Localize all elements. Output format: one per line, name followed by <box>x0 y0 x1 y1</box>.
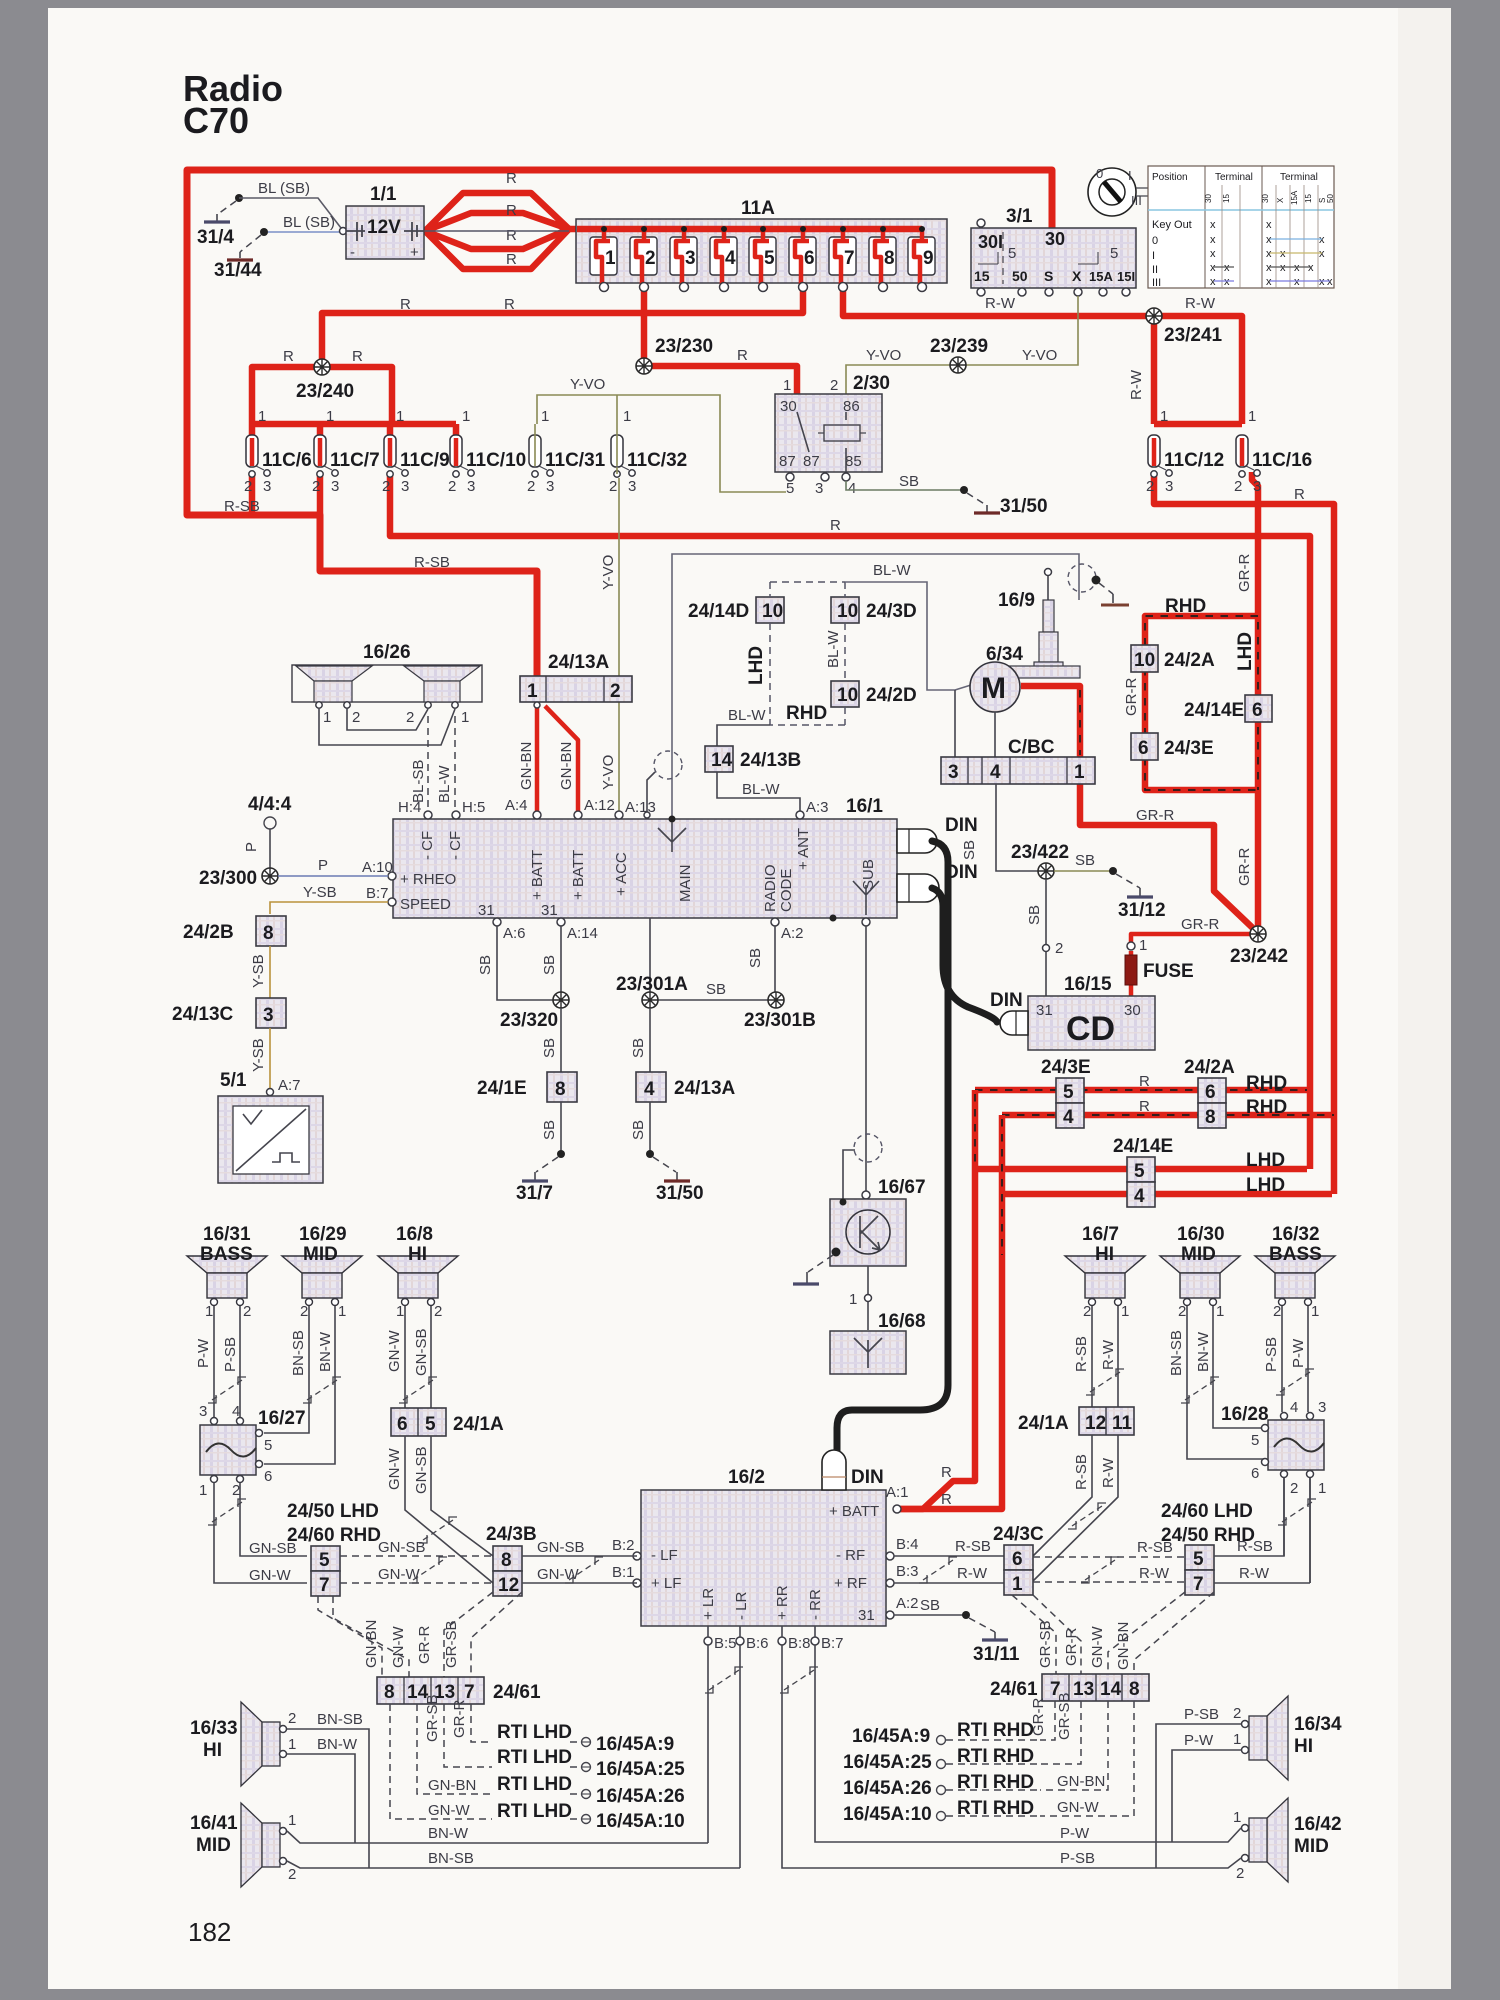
svg-text:RHD: RHD <box>786 703 827 724</box>
svg-text:16/28: 16/28 <box>1221 1404 1269 1425</box>
svg-text:30: 30 <box>1261 194 1270 203</box>
wire BL-W antenna main <box>672 554 1079 816</box>
fuse 3 <box>670 237 697 292</box>
svg-text:R-W: R-W <box>1139 1565 1170 1582</box>
wire amp A:1 pin <box>893 1505 901 1513</box>
wires 16/28 down <box>1284 1478 1310 1583</box>
23/301A net <box>650 918 775 1000</box>
svg-text:x: x <box>1266 219 1272 231</box>
svg-text:BL-W: BL-W <box>825 630 842 668</box>
dashed 24/3C to 24/60 right <box>1033 1557 1185 1582</box>
ignition switch 3/1 <box>971 228 1136 288</box>
svg-text:GN-W: GN-W <box>1089 1626 1106 1668</box>
svg-text:GN-W: GN-W <box>249 1567 291 1584</box>
antenna connector top <box>1068 564 1096 592</box>
svg-text:SB: SB <box>1026 905 1043 925</box>
svg-text:LHD: LHD <box>746 646 767 685</box>
svg-text:A:14: A:14 <box>567 925 598 942</box>
svg-text:85: 85 <box>845 453 862 470</box>
svg-text:16/42: 16/42 <box>1294 1814 1342 1835</box>
wire RHD row bottom <box>1002 1112 1334 1119</box>
svg-text:2: 2 <box>1178 1303 1186 1320</box>
svg-text:23/422: 23/422 <box>1011 842 1069 863</box>
svg-text:11C/12: 11C/12 <box>1164 450 1224 471</box>
svg-text:2: 2 <box>1055 940 1063 957</box>
svg-text:1: 1 <box>258 408 266 425</box>
wire BL(SB) top to battery <box>239 198 341 228</box>
svg-text:2: 2 <box>352 709 360 726</box>
svg-text:2/30: 2/30 <box>853 373 890 394</box>
svg-text:15: 15 <box>1304 194 1313 203</box>
svg-text:Position: Position <box>1152 172 1188 183</box>
svg-text:16/30: 16/30 <box>1177 1224 1225 1245</box>
svg-text:11C/6: 11C/6 <box>262 450 312 471</box>
speaker 16/7 HI <box>1065 1256 1145 1306</box>
svg-text:5: 5 <box>319 1550 330 1571</box>
svg-text:RTI RHD: RTI RHD <box>957 1720 1034 1741</box>
svg-text:16/31: 16/31 <box>203 1224 251 1245</box>
wire fuse6 to 23/240 <box>322 290 803 367</box>
svg-text:Y-VO: Y-VO <box>600 755 617 790</box>
svg-text:31: 31 <box>858 1607 875 1624</box>
svg-text:16/7: 16/7 <box>1082 1224 1119 1245</box>
svg-text:- RF: - RF <box>836 1547 865 1564</box>
svg-text:23/242: 23/242 <box>1230 946 1288 967</box>
svg-text:Y-VO: Y-VO <box>1022 347 1057 364</box>
svg-text:GR-R: GR-R <box>1063 1628 1080 1666</box>
svg-text:GR-SB: GR-SB <box>443 1620 460 1668</box>
radio bottom pins <box>493 918 501 926</box>
svg-text:GN-BN: GN-BN <box>518 742 535 790</box>
svg-text:7: 7 <box>319 1575 330 1596</box>
svg-text:P-W: P-W <box>1184 1732 1214 1749</box>
svg-text:1: 1 <box>1318 1480 1326 1497</box>
amp bottom pins <box>704 1637 712 1645</box>
svg-text:3: 3 <box>628 478 636 495</box>
svg-text:23/230: 23/230 <box>655 336 713 357</box>
svg-text:2: 2 <box>609 478 617 495</box>
svg-text:H:5: H:5 <box>462 799 485 816</box>
svg-text:30: 30 <box>1045 229 1065 249</box>
svg-text:24/14E: 24/14E <box>1113 1136 1173 1157</box>
svg-text:5: 5 <box>264 1437 272 1454</box>
svg-text:+ LR: + LR <box>700 1588 717 1620</box>
dashed to 24/3B <box>340 1556 493 1583</box>
BL-W D-net connectors <box>770 581 845 583</box>
svg-text:6: 6 <box>1138 738 1149 759</box>
speaker pair 16/26 <box>292 665 482 702</box>
svg-text:8: 8 <box>501 1550 512 1571</box>
svg-text:23/301B: 23/301B <box>744 1010 816 1031</box>
svg-text:11C/31: 11C/31 <box>545 450 606 471</box>
svg-text:1: 1 <box>1160 408 1168 425</box>
svg-text:14: 14 <box>1100 1679 1122 1700</box>
svg-text:R-SB: R-SB <box>414 554 450 571</box>
svg-text:RHD: RHD <box>1246 1097 1287 1118</box>
wire battery lens R x4 <box>425 193 569 269</box>
svg-text:R-SB: R-SB <box>1237 1538 1273 1555</box>
wire 23/240 to 11C/6..11C/10 pins1 <box>252 367 456 436</box>
svg-text:24/13B: 24/13B <box>740 750 801 771</box>
svg-text:Y-SB: Y-SB <box>250 1038 267 1072</box>
svg-text:1: 1 <box>1311 1303 1319 1320</box>
svg-text:R: R <box>1139 1073 1150 1090</box>
svg-text:16/29: 16/29 <box>299 1224 347 1245</box>
svg-text:LHD: LHD <box>1246 1175 1285 1196</box>
svg-text:1/1: 1/1 <box>370 184 397 205</box>
svg-text:2: 2 <box>1083 1303 1091 1320</box>
svg-text:3: 3 <box>263 1005 274 1026</box>
svg-text:7: 7 <box>1193 1574 1204 1595</box>
svg-text:24/3E: 24/3E <box>1041 1057 1091 1078</box>
svg-text:R: R <box>283 348 294 365</box>
fuses 1-9 <box>577 226 935 292</box>
svg-text:H:4: H:4 <box>398 799 421 816</box>
svg-text:x: x <box>1210 219 1216 231</box>
svg-text:3: 3 <box>1318 1399 1326 1416</box>
svg-text:GN-W: GN-W <box>428 1802 470 1819</box>
wire LHD row bottom <box>1002 1191 1332 1198</box>
svg-text:R: R <box>506 170 517 187</box>
fuse 4 <box>710 237 737 292</box>
wire motor GR-R to C/BC and 23/242 <box>1021 686 1258 933</box>
svg-text:BN-W: BN-W <box>428 1825 469 1842</box>
svg-text:+ BATT: + BATT <box>529 850 546 900</box>
svg-text:P-SB: P-SB <box>222 1337 239 1372</box>
svg-text:P-W: P-W <box>1290 1338 1307 1368</box>
svg-text:x: x <box>1308 262 1314 274</box>
svg-text:16/45A:9: 16/45A:9 <box>852 1726 930 1747</box>
svg-text:16/9: 16/9 <box>998 590 1035 611</box>
svg-text:182: 182 <box>188 1917 231 1947</box>
svg-text:3: 3 <box>948 762 959 783</box>
svg-text:MID: MID <box>196 1835 231 1856</box>
antenna connector circle at radio <box>654 751 682 779</box>
svg-text:2: 2 <box>645 248 656 269</box>
svg-text:31/4: 31/4 <box>197 227 234 248</box>
svg-text:A:2: A:2 <box>781 925 804 942</box>
svg-text:24/14E: 24/14E <box>1184 700 1244 721</box>
wires 16/33 <box>287 1729 369 1868</box>
svg-text:SB: SB <box>1075 852 1095 869</box>
wire fuse bus <box>569 226 922 233</box>
svg-text:24/3D: 24/3D <box>866 601 917 622</box>
svg-text:C70: C70 <box>183 100 249 141</box>
svg-text:2: 2 <box>300 1303 308 1320</box>
svg-text:R-SB: R-SB <box>955 1538 991 1555</box>
svg-text:- RR: - RR <box>807 1589 824 1620</box>
svg-text:30I: 30I <box>978 232 1003 252</box>
svg-text:1: 1 <box>1121 1303 1129 1320</box>
radio 16/1 <box>393 819 897 918</box>
svg-text:4: 4 <box>1063 1107 1074 1128</box>
svg-text:16/45A:25: 16/45A:25 <box>596 1759 685 1780</box>
svg-text:31: 31 <box>1036 1002 1053 1019</box>
svg-text:GR-R: GR-R <box>1123 678 1140 716</box>
svg-text:SB: SB <box>541 955 558 975</box>
svg-text:B:8: B:8 <box>788 1635 811 1652</box>
svg-text:87: 87 <box>803 453 820 470</box>
svg-text:RTI LHD: RTI LHD <box>497 1774 572 1795</box>
svg-text:R: R <box>504 296 515 313</box>
svg-text:3: 3 <box>199 1403 207 1420</box>
svg-text:- CF: - CF <box>419 831 436 860</box>
fuse 5 <box>749 237 776 292</box>
black DIN cable radio to amp <box>837 841 948 1455</box>
wire RHD row top <box>975 1087 1307 1094</box>
svg-text:3: 3 <box>1253 478 1261 495</box>
svg-text:MID: MID <box>303 1244 338 1265</box>
connector 11C/9 body <box>384 435 408 477</box>
svg-text:11C/16: 11C/16 <box>1252 450 1312 471</box>
svg-text:3: 3 <box>815 480 823 497</box>
svg-text:R-SB: R-SB <box>1073 1454 1090 1490</box>
wire 11C/31 Y-VO up <box>535 424 617 466</box>
svg-text:24/61: 24/61 <box>990 1679 1038 1700</box>
wire BL(SB) to battery <box>268 231 343 233</box>
wire RHD loop antenna dashed <box>1145 616 1258 790</box>
svg-text:A:6: A:6 <box>503 925 526 942</box>
svg-text:RHD: RHD <box>1165 596 1206 617</box>
svg-text:SB: SB <box>477 955 494 975</box>
svg-text:0: 0 <box>1096 166 1103 181</box>
svg-text:BN-SB: BN-SB <box>317 1711 363 1728</box>
wire 11C/12 pin2 R to right vertical R-W <box>1154 472 1334 1194</box>
svg-text:MAIN: MAIN <box>677 865 694 903</box>
svg-text:GR-R: GR-R <box>1181 916 1219 933</box>
svg-text:24/3C: 24/3C <box>993 1524 1044 1545</box>
wire Y-SB speed <box>270 902 388 914</box>
dashed 24/61 right down RTI <box>1040 1701 1134 1816</box>
svg-text:1: 1 <box>326 408 334 425</box>
connector 11C/31 body <box>529 435 553 477</box>
wire C/BC 4 SB to 23/422 <box>996 784 1038 871</box>
connector 11C/10 body <box>450 435 474 477</box>
svg-text:x: x <box>1210 262 1216 274</box>
svg-text:MID: MID <box>1181 1244 1216 1265</box>
svg-text:24/61: 24/61 <box>493 1682 541 1703</box>
svg-text:SB: SB <box>706 981 726 998</box>
wires 16/7 down <box>1092 1306 1118 1407</box>
svg-text:5: 5 <box>786 480 794 497</box>
svg-text:A:12: A:12 <box>584 797 615 814</box>
svg-text:+ RR: + RR <box>774 1585 791 1620</box>
junction 23/239 <box>950 357 966 373</box>
svg-text:+ RF: + RF <box>834 1575 867 1592</box>
svg-text:12: 12 <box>498 1575 519 1596</box>
svg-text:RTI LHD: RTI LHD <box>497 1801 572 1822</box>
svg-text:2: 2 <box>830 377 838 394</box>
svg-text:16/1: 16/1 <box>846 796 883 817</box>
svg-text:SB: SB <box>899 473 919 490</box>
svg-text:16/45A:26: 16/45A:26 <box>843 1778 932 1799</box>
svg-text:24/13A: 24/13A <box>674 1078 736 1099</box>
svg-text:2: 2 <box>243 1303 251 1320</box>
svg-text:x: x <box>1210 234 1216 246</box>
svg-text:x: x <box>1319 248 1325 260</box>
svg-text:B:6: B:6 <box>746 1635 769 1652</box>
junction 23/230 <box>636 358 652 374</box>
svg-text:16/15: 16/15 <box>1064 974 1112 995</box>
battery 1/1 <box>346 206 424 259</box>
svg-text:1: 1 <box>338 1303 346 1320</box>
svg-text:11C/10: 11C/10 <box>466 450 526 471</box>
svg-text:+ BATT: + BATT <box>829 1503 879 1520</box>
svg-text:P-W: P-W <box>1060 1825 1090 1842</box>
connector 11C/32 body <box>611 435 635 477</box>
svg-text:P-SB: P-SB <box>1263 1337 1280 1372</box>
speaker 16/32 BASS <box>1255 1256 1335 1306</box>
svg-text:BL-W: BL-W <box>742 781 780 798</box>
svg-text:15: 15 <box>974 268 990 284</box>
svg-text:BN-SB: BN-SB <box>1168 1330 1185 1376</box>
svg-text:HI: HI <box>408 1244 427 1265</box>
svg-text:24/3B: 24/3B <box>486 1524 537 1545</box>
svg-text:x: x <box>1319 276 1325 288</box>
connector 11C/7 body <box>314 435 338 477</box>
svg-text:R-W: R-W <box>1239 1565 1270 1582</box>
svg-text:R-W: R-W <box>1100 1339 1117 1370</box>
speaker 16/29 MID <box>282 1256 362 1306</box>
svg-text:-: - <box>350 244 355 261</box>
svg-text:24/2D: 24/2D <box>866 685 917 706</box>
svg-text:12: 12 <box>1085 1413 1106 1434</box>
svg-text:I: I <box>1128 168 1132 183</box>
svg-text:16/68: 16/68 <box>878 1311 926 1332</box>
svg-text:5: 5 <box>1008 245 1016 262</box>
svg-text:3: 3 <box>1165 478 1173 495</box>
svg-text:R: R <box>737 347 748 364</box>
fuse CD symbol <box>1125 955 1137 985</box>
svg-text:- LF: - LF <box>651 1547 678 1564</box>
svg-text:GN-W: GN-W <box>1057 1799 1099 1816</box>
svg-text:16/67: 16/67 <box>878 1177 926 1198</box>
svg-text:6: 6 <box>1205 1082 1216 1103</box>
svg-text:CODE: CODE <box>778 869 795 912</box>
svg-text:B:5: B:5 <box>714 1635 737 1652</box>
svg-text:1: 1 <box>205 1303 213 1320</box>
wire vertical A to amp A:1 <box>895 1090 975 1509</box>
svg-text:SB: SB <box>961 840 978 860</box>
svg-text:P-SB: P-SB <box>1060 1850 1095 1867</box>
svg-text:R: R <box>400 296 411 313</box>
svg-text:1: 1 <box>288 1812 296 1829</box>
svg-text:BL-W: BL-W <box>436 765 453 803</box>
svg-text:GR-SB: GR-SB <box>1056 1692 1073 1740</box>
svg-text:23/320: 23/320 <box>500 1010 558 1031</box>
svg-text:x: x <box>1266 276 1272 288</box>
svg-text:I: I <box>1152 250 1155 262</box>
wire 11C/6 pin2 down to border <box>252 472 320 515</box>
svg-text:BL-W: BL-W <box>873 562 911 579</box>
svg-text:LHD: LHD <box>1235 632 1256 671</box>
svg-text:24/3E: 24/3E <box>1164 738 1214 759</box>
svg-text:11C/32: 11C/32 <box>627 450 687 471</box>
svg-text:GN-W: GN-W <box>378 1566 420 1583</box>
wires 16/8 down <box>405 1306 431 1436</box>
svg-text:DIN: DIN <box>851 1467 884 1488</box>
svg-text:DIN: DIN <box>990 990 1023 1011</box>
svg-text:31/7: 31/7 <box>516 1183 553 1204</box>
svg-text:A:7: A:7 <box>278 1077 301 1094</box>
svg-text:GN-SB: GN-SB <box>413 1328 430 1376</box>
svg-text:SB: SB <box>920 1597 940 1614</box>
bottom BN wires <box>287 1831 740 1868</box>
connector 11C/6 <box>244 408 1312 816</box>
svg-text:+ BATT: + BATT <box>570 850 587 900</box>
svg-text:2: 2 <box>1236 1865 1244 1882</box>
svg-text:S: S <box>1044 268 1053 284</box>
svg-text:4: 4 <box>1290 1399 1298 1416</box>
connector 11C/12 body <box>1148 435 1172 477</box>
position table <box>1148 166 1335 289</box>
svg-text:16/45A:26: 16/45A:26 <box>596 1786 685 1807</box>
fuse 1 <box>590 237 617 292</box>
svg-text:Y-SB: Y-SB <box>303 884 337 901</box>
bus tap dots <box>601 226 925 232</box>
svg-text:30: 30 <box>1204 194 1213 203</box>
svg-text:24/50 LHD: 24/50 LHD <box>287 1501 379 1522</box>
svg-text:11C/9: 11C/9 <box>400 450 450 471</box>
svg-text:x: x <box>1294 276 1300 288</box>
svg-text:R-W: R-W <box>1185 295 1216 312</box>
svg-text:31: 31 <box>541 902 558 919</box>
svg-text:GN-W: GN-W <box>390 1626 407 1668</box>
svg-text:1: 1 <box>1233 1809 1241 1826</box>
svg-text:x: x <box>1266 248 1272 260</box>
svg-text:SB: SB <box>541 1038 558 1058</box>
svg-text:1: 1 <box>396 1303 404 1320</box>
svg-text:16/34: 16/34 <box>1294 1714 1342 1735</box>
svg-text:1: 1 <box>1074 762 1085 783</box>
svg-text:9: 9 <box>923 248 934 269</box>
fuse 8 <box>869 237 896 292</box>
svg-text:R-W: R-W <box>985 295 1016 312</box>
wire vertical B to amp A:1 <box>895 1115 1002 1509</box>
svg-text:2: 2 <box>406 709 414 726</box>
svg-text:B:4: B:4 <box>896 1536 919 1553</box>
svg-text:FUSE: FUSE <box>1143 961 1194 982</box>
svg-text:Terminal: Terminal <box>1280 172 1318 183</box>
svg-text:16/32: 16/32 <box>1272 1224 1320 1245</box>
svg-text:8: 8 <box>1129 1679 1140 1700</box>
svg-text:+ RHEO: + RHEO <box>400 871 456 888</box>
svg-text:R: R <box>941 1464 952 1481</box>
svg-text:+ ACC: + ACC <box>613 852 630 896</box>
svg-text:SB: SB <box>541 1120 558 1140</box>
connector 24/13C <box>256 998 286 1028</box>
junction 23/241 <box>1146 308 1162 324</box>
wire relay 85 SB to ground 31/50 <box>846 481 964 490</box>
svg-text:GN-BN: GN-BN <box>428 1777 476 1794</box>
wire Y-VO horizontal lower <box>537 395 786 492</box>
ground 31/44 <box>260 228 268 236</box>
svg-text:+ LF: + LF <box>651 1575 681 1592</box>
svg-text:x: x <box>1266 262 1272 274</box>
svg-text:R-W: R-W <box>1100 1457 1117 1488</box>
svg-text:R-W: R-W <box>1128 369 1145 400</box>
svg-text:31: 31 <box>478 902 495 919</box>
wire fuse7 R-W to 23/241 and 11C/12 11C/16 <box>843 290 1242 424</box>
svg-text:x: x <box>1224 262 1230 274</box>
svg-text:DIN: DIN <box>945 815 978 836</box>
svg-text:R-SB: R-SB <box>1073 1336 1090 1372</box>
svg-text:P: P <box>318 857 328 874</box>
svg-text:16/33: 16/33 <box>190 1718 238 1739</box>
svg-text:1: 1 <box>323 709 331 726</box>
svg-text:24/1A: 24/1A <box>453 1414 504 1435</box>
svg-text:23/300: 23/300 <box>199 868 257 889</box>
